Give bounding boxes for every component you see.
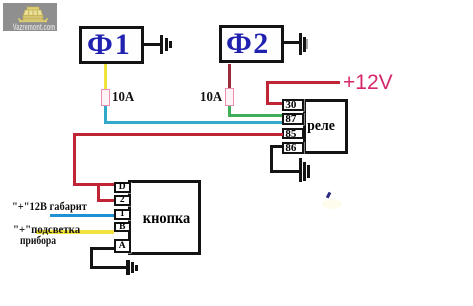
label pribora [20,233,56,248]
wire cyan fuse1 down [104,106,107,123]
logo Vazremont.com [3,3,57,31]
wire green fuse2 down [228,106,231,117]
button pin B [114,222,131,232]
wire black to ground G3 [270,170,300,173]
stray blue tick [326,192,331,199]
wire black to ground G4 [90,266,126,269]
wire black pin 86 left [270,145,283,148]
label +12V [343,71,393,95]
relay pin 87 [282,113,304,125]
wire red into pin 30 [266,102,282,105]
relay U1 body [303,99,348,154]
ground G3 [299,158,302,182]
fuse FU2 [225,88,234,106]
relay pin 30 [282,99,304,111]
wire green to relay 87 [228,114,283,117]
wire black down [270,145,273,172]
lamp box F1 [79,26,144,64]
ground G2 [299,33,302,55]
button pin D [114,182,131,193]
wire red +12V horizontal [266,81,340,84]
wire yellow F1 to fuse1 [104,64,107,89]
ground G1 [160,35,163,54]
wire blue to pin 1 [50,214,114,217]
wire red vertical down [73,133,76,186]
wire yellow to pin B [36,230,114,234]
fuse FU1 [101,89,110,106]
label 10A fuse1 [112,90,134,106]
wire red to pin D [73,183,115,186]
relay pin 85 [282,127,304,138]
wire black down [90,247,93,269]
wire dark red F2 to fuse2 [228,64,231,88]
button pin A [114,239,131,253]
relay pin 86 [282,142,304,154]
wire black pin A left [90,247,114,250]
button pin 2 [114,195,131,206]
wire red branch vertical [97,183,100,202]
wire F1 to ground [144,43,161,46]
wire cyan to relay 87 [104,121,283,124]
label 10A fuse2 [200,90,222,106]
button pin 1 [114,209,131,220]
label +12V gabarit [12,199,87,214]
wire red +12V vertical [266,81,269,105]
wire red to pin 2 [97,199,115,202]
ground G4 [126,260,130,275]
label podsvetka [13,222,80,237]
lamp box F2 [219,25,284,63]
faint yellow smudge [322,199,342,209]
wire red long to pin 85 [73,133,283,136]
button box (knopka) body [128,180,201,255]
wire F2 to ground [284,41,299,44]
